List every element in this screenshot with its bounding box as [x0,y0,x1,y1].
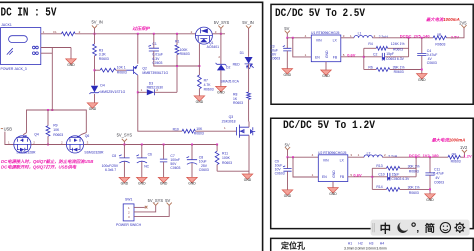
svg-text:R14: R14 [376,185,382,189]
node junction R11 top [216,144,218,146]
transistor Q3 2SK3018 [236,125,249,138]
wire Q1 to 5V_SYS node [212,33,225,35]
ground under C11 [425,194,436,199]
node junction C3 [286,37,288,39]
svg-text:5V_SYS: 5V_SYS [148,198,164,203]
wire U2 LX out [348,156,364,158]
svg-text:DCDC_1V2_180: DCDC_1V2_180 [409,153,440,158]
svg-text:H4: H4 [380,242,384,246]
svg-text:FB: FB [340,175,345,179]
svg-text:GND: GND [244,178,252,182]
node junction R9 bottom [47,144,49,146]
ground under C9 [282,190,293,195]
svg-text:10K 1: 10K 1 [117,65,126,69]
resistor R5 0R [433,36,446,40]
svg-text:SW1: SW1 [125,197,132,201]
svg-text:C10: C10 [378,173,384,177]
switch SW1 [123,204,134,221]
inductor L1 [354,35,372,37]
svg-text:L1: L1 [358,31,362,35]
svg-text:R0603: R0603 [394,70,404,74]
node junction C9 [287,156,289,158]
ground under U2 [328,188,339,193]
node junction R9 top [47,109,49,111]
wire 5V to U2 VIN [288,156,319,158]
capacitor C10 [372,176,387,178]
ground under C4 [417,74,428,79]
svg-text:GND: GND [188,182,196,186]
ground under R7 [194,96,205,101]
svg-text:15pF: 15pF [392,172,400,176]
svg-text:0.47uF: 0.47uF [433,171,444,175]
svg-text:2: 2 [128,210,130,214]
svg-text:1: 1 [141,88,143,92]
wire FB divider vertical U2 [371,168,373,189]
svg-text:GND: GND [217,91,225,95]
svg-text:C1: C1 [152,42,156,46]
wire EN tie [293,38,312,57]
svg-text:1: 1 [224,126,226,130]
svg-text:2: 2 [61,141,63,145]
ground under C3 [282,69,293,74]
wire gate rail (Q4/Q6 gates) [27,110,87,133]
svg-text:R4: R4 [368,42,372,46]
svg-text:5: 5 [350,173,352,177]
svg-text:30K 1%: 30K 1% [408,185,420,189]
svg-text:5: 5 [343,53,345,57]
svg-text:4V: 4V [435,176,440,180]
resistor R14 [372,188,386,190]
svg-text:R0603: R0603 [180,52,190,56]
svg-text:39K 1%: 39K 1% [393,66,405,70]
svg-text:R0603: R0603 [393,48,403,52]
resistor R2 [100,68,116,72]
svg-text:C8: C8 [112,154,116,158]
resistor R4 [364,47,376,49]
node junction C1 branch [153,33,155,35]
svg-text:10K: 10K [53,128,60,132]
svg-text:R7: R7 [204,79,208,83]
op-amp U1 regulator RT8096CHGJ5 [311,35,341,62]
svg-text:H2: H2 [358,242,362,246]
IME toolbar background [371,220,470,236]
diode D1 LED [245,57,253,64]
resistor R12 0R [448,155,460,159]
svg-text:GND: GND [284,194,292,198]
ground under C5 [187,177,198,182]
svg-text:0.6V: 0.6V [353,172,362,177]
svg-text:3: 3 [87,141,89,145]
ground under U1 [321,70,332,75]
svg-text:NC: NC [144,165,149,169]
ground under Q3 [242,174,253,179]
resistor R11 [216,145,218,152]
svg-text:R9: R9 [53,124,57,128]
svg-text:R1: R1 [175,39,179,43]
svg-text:SSM3J328R: SSM3J328R [16,151,36,155]
svg-text:5V: 5V [284,26,289,31]
wire SW1 pin3 to 5V [134,205,169,216]
svg-text:AO3401: AO3401 [207,45,220,49]
node junction R1/gate-rail [176,65,178,67]
svg-text:DCDC_2V5_140: DCDC_2V5_140 [400,33,431,38]
svg-text:JACK1: JACK1 [1,23,12,27]
svg-text:MMSZ5V1ST1G: MMSZ5V1ST1G [100,90,125,94]
IME icon settings gear [454,222,465,233]
wire FB divider vertical [363,48,365,69]
diode D2 tvs [220,34,222,64]
svg-text:4: 4 [312,153,314,157]
svg-text:Q6: Q6 [85,134,90,138]
connector JACK1 body [1,28,41,65]
node junction R6/C4 gnd [421,69,423,71]
svg-text:定位孔: 定位孔 [280,240,305,250]
transistor Q1 mosfet AO3401 [195,27,212,44]
node junction R13 feedback [415,156,417,158]
wire R3 to R2/D4 node [94,56,96,86]
svg-text:1: 1 [128,206,130,210]
resistor R6 [364,69,376,71]
wire R11 to Q3 source/gnd [217,171,249,174]
svg-text:最大电流1000mA: 最大电流1000mA [432,138,466,143]
svg-text:3.0mm: 3.0mm [366,247,377,251]
resistor R10 [182,129,195,133]
node junction C4 [421,37,423,39]
svg-text:C0603: C0603 [270,56,280,60]
node junction C6 top [141,144,143,146]
resistor R8 [247,92,251,99]
IME icon punctuation [412,223,415,226]
diode D3 [138,91,147,93]
resistor R7 [198,66,200,75]
svg-text:C0603: C0603 [152,61,162,65]
svg-text:100K: 100K [222,156,231,160]
wire SW1 pin2 to 5V_SYS [134,205,156,212]
svg-text:R0603: R0603 [99,57,109,61]
svg-text:R0603: R0603 [451,159,461,163]
svg-text:C0603: C0603 [275,172,285,176]
svg-text:2: 2 [374,34,376,38]
svg-text:GND: GND [284,73,292,77]
svg-text:1.2V: 1.2V [463,154,472,159]
node junction Q2 branch [137,33,139,35]
svg-text:C6: C6 [148,152,152,156]
resistor R1 [176,34,178,45]
wire Q4 to Q6 [31,144,66,146]
svg-text:2: 2 [384,153,386,157]
svg-text:RB521S30: RB521S30 [147,86,164,90]
svg-text:,: , [416,223,419,234]
svg-text:R0603: R0603 [204,87,214,91]
svg-text:2: 2 [33,141,35,145]
capacitor C3 [286,38,288,48]
wire 1V2 rail [382,156,448,158]
wire to 1V2 port [460,153,464,158]
svg-text:3: 3 [343,34,345,38]
svg-text:1K: 1K [233,97,238,101]
svg-text:DC电源接入时，Q6/Q7截止，防止电流回流USB: DC电源接入时，Q6/Q7截止，防止电流回流USB [1,159,93,164]
wire 5V to U1 VIN [287,37,311,39]
frame left section border [0,2,263,251]
svg-text:POWER SWICH: POWER SWICH [116,223,142,227]
node junction C7 top [163,144,165,146]
fuse F1 [61,32,75,36]
svg-text:1: 1 [358,153,360,157]
svg-text:15pF: 15pF [386,52,394,56]
svg-text:GND: GND [67,63,75,67]
node junction R1 branch [176,33,178,35]
svg-text:3.0mm: 3.0mm [376,247,387,251]
wire SW1 pin1 [134,206,145,208]
node junction R2/D4 [94,69,96,71]
svg-text:1: 1 [8,141,10,145]
svg-text:2.2uH: 2.2uH [388,155,398,159]
svg-text:VIN: VIN [323,158,329,162]
svg-text:GND: GND [322,74,330,78]
diode D4 zener [91,86,98,93]
node junction R14/C11 gnd [429,188,431,190]
svg-text:R0603: R0603 [435,42,445,46]
svg-text:4.7K: 4.7K [204,83,212,87]
svg-text:GND: GND [426,198,434,202]
inductor L2 [364,155,382,157]
resistor R3 [93,44,97,56]
wire U2 FB [348,176,373,178]
wire gate sense vertical [138,92,182,131]
svg-text:R0603: R0603 [117,70,127,74]
svg-text:GND: GND [160,182,168,186]
wire D4 to ground [94,94,96,103]
wire U1 LX out [341,37,354,39]
svg-text:5V: 5V [285,142,290,147]
svg-text:GND: GND [121,182,129,186]
wire EN tie U2 [293,157,318,177]
svg-text:R6: R6 [368,65,372,69]
svg-text:D4: D4 [100,84,104,88]
svg-text:2SK3018: 2SK3018 [222,119,236,123]
wire Q2 emitter up [137,34,139,64]
op-amp U2 regulator RT8096CHGJ5 [318,155,348,182]
node junction 5V_IN/R3 [94,33,96,35]
svg-text:C0603: C0603 [434,180,444,184]
wire 5V_IN to R3 [94,34,96,44]
svg-text:FB: FB [333,55,338,59]
svg-text:Q4: Q4 [34,133,39,137]
svg-text:5V_IN: 5V_IN [242,20,253,25]
svg-text:30K 1%: 30K 1% [408,164,420,168]
wire jack pin2 row [41,47,71,49]
wire 2V5 rail [372,37,433,39]
svg-text:0R: 0R [437,33,442,37]
svg-text:H1: H1 [348,242,352,246]
svg-text:DC电源断开时，Q6/Q7打开，USB供电: DC电源断开时，Q6/Q7打开，USB供电 [1,165,77,170]
svg-text:C2: C2 [373,52,377,56]
svg-text:C0603 6.3V: C0603 6.3V [386,57,405,61]
svg-text:LX: LX [340,158,345,162]
svg-text:R0603: R0603 [409,191,419,195]
svg-text:DC/DC 5V To 1.2V: DC/DC 5V To 1.2V [283,120,375,132]
capacitor C5 [191,145,193,160]
svg-text:过压保护: 过压保护 [132,26,150,31]
capacitor C7 [163,145,165,159]
wire jack to gate rail [51,48,53,111]
node junction EN branch [292,37,294,39]
svg-text:4: 4 [305,34,307,38]
svg-text:R10: R10 [173,127,179,131]
svg-text:VIN: VIN [316,38,322,42]
transistor Q6 mosfet [66,136,83,153]
wire F1 to Q1 pin2 (5V_IN rail) [75,33,195,35]
svg-text:2.2uH: 2.2uH [379,35,389,39]
node junction R4 feedback [408,37,410,39]
wire U2 gnd pin [332,182,334,188]
svg-text:R0603: R0603 [53,133,63,137]
svg-text:6.3x5.7: 6.3x5.7 [105,168,116,172]
wire 5V_SYS rail (cap bank) [84,144,218,146]
node junction C11 [429,156,431,158]
svg-text:5V_SYS: 5V_SYS [214,20,230,25]
svg-text:简: 简 [425,222,435,235]
capacitor C1 [153,34,155,48]
transistor Q4 mosfet [14,136,31,153]
svg-text:1V2: 1V2 [460,145,468,150]
svg-text:GND: GND [138,182,146,186]
capacitor C8 electrolytic [123,145,125,158]
ground under jack [66,59,77,64]
svg-text:D1: D1 [240,51,244,55]
svg-text:5V_SYS: 5V_SYS [117,132,133,137]
svg-text:RED: RED [233,62,241,66]
svg-text:SMAJ5.0CA: SMAJ5.0CA [220,79,239,83]
svg-text:R0603: R0603 [409,170,419,174]
svg-text:MMBT3906LT1G: MMBT3906LT1G [142,71,168,75]
svg-text:R0603: R0603 [222,161,232,165]
ground under C6 [137,177,148,182]
ground under D2 [216,86,227,91]
svg-text:GND: GND [332,170,336,178]
svg-text:1: 1 [312,173,314,177]
svg-text:DC/DC 5V To 2.5V: DC/DC 5V To 2.5V [275,8,365,20]
capacitor C9 [287,157,289,168]
svg-text:R0603: R0603 [233,101,243,105]
capacitor C2 [364,56,382,58]
svg-text:C0603: C0603 [199,168,209,172]
node junction C8 top [123,144,125,146]
capacitor C6 [141,145,143,158]
svg-text:R13: R13 [376,164,382,168]
svg-text:0R: 0R [452,153,457,157]
node junction gate rail [51,109,53,111]
frame DC/DC 5V-2.5V box [271,4,473,104]
svg-text:L2: L2 [367,151,371,155]
svg-text:GND: GND [329,192,337,196]
ground under D4 [87,103,98,108]
node junction Q2/D3 [137,91,139,93]
svg-text:GND: GND [418,78,426,82]
frame positioning-holes box [271,238,474,251]
svg-text:U2 RT8096CHGJ5: U2 RT8096CHGJ5 [318,151,347,155]
svg-text:R0603: R0603 [194,131,204,135]
svg-text:1: 1 [350,34,352,38]
svg-text:R11: R11 [222,152,228,156]
svg-text:LX: LX [333,38,338,42]
svg-text:DC IN : 5V: DC IN : 5V [1,6,57,19]
svg-text:5V_IN: 5V_IN [92,20,103,25]
svg-text:F1: F1 [53,30,57,34]
svg-text:3.0mm: 3.0mm [344,247,355,251]
wire U1 FB [341,56,364,58]
svg-text:2V5: 2V5 [459,20,467,25]
node junction Q1 gate [198,65,200,67]
wire U1 gnd pin [325,62,327,70]
svg-text:GND: GND [196,100,204,104]
svg-text:124K 1%: 124K 1% [391,42,405,46]
svg-text:USB: USB [4,126,13,131]
svg-text:POWER JACK_3: POWER JACK_3 [1,67,27,71]
node junction 5V_SYS/D2 [220,33,222,35]
svg-text:2: 2 [218,55,220,59]
svg-text:C0603: C0603 [427,61,437,65]
svg-text:EN: EN [322,175,327,179]
node junction C5 top [191,144,193,146]
wire D3 to R1 bottom [176,66,178,92]
svg-text:R8: R8 [233,92,237,96]
wire Q1 gate [198,43,200,66]
node junction FB U2 [371,176,373,178]
svg-text:0.6V: 0.6V [347,52,356,57]
ground under C8 [119,177,130,182]
connector JACK1 pin contacts [33,46,36,49]
wire jack pin3 row [41,52,53,54]
svg-text:GND: GND [89,107,97,111]
svg-text:3: 3 [128,215,130,219]
frame DC/DC 5V-1.2V box [271,118,474,228]
svg-text:SSM3J328R: SSM3J328R [84,151,104,155]
svg-text:GND: GND [325,50,329,58]
transistor Q2 pnp [126,65,138,75]
wire to 2V5 port [446,28,464,38]
svg-text:EN: EN [315,55,320,59]
wire sleeve to ground [70,48,72,59]
resistor R9 [47,110,49,126]
svg-text:Q3: Q3 [229,115,234,119]
wire jack pin1 to fuse F1 [41,33,62,35]
svg-text:5V: 5V [165,198,170,203]
IME icon moon [397,222,408,233]
resistor R13 [372,167,386,169]
svg-text:中: 中 [380,221,391,235]
svg-text:C0603: C0603 [170,166,180,170]
svg-text:D2: D2 [226,66,230,70]
svg-text:3.0mm: 3.0mm [355,247,366,251]
svg-text:3: 3 [350,153,352,157]
svg-text:H3: H3 [369,242,373,246]
IME icon smiley [440,223,450,233]
svg-text:U1 RT8096CHGJ5: U1 RT8096CHGJ5 [311,31,340,35]
node junction EN branch U2 [292,156,294,158]
capacitor C11 [429,157,431,172]
ground under C7 [158,177,169,182]
capacitor C4 [421,38,423,53]
svg-text:2.5V: 2.5V [451,35,460,40]
svg-text:最大电流1000mA: 最大电流1000mA [426,17,460,22]
svg-text:C0603 6.3V: C0603 6.3V [391,177,410,181]
node junction FB [363,56,365,58]
svg-text:1: 1 [305,53,307,57]
